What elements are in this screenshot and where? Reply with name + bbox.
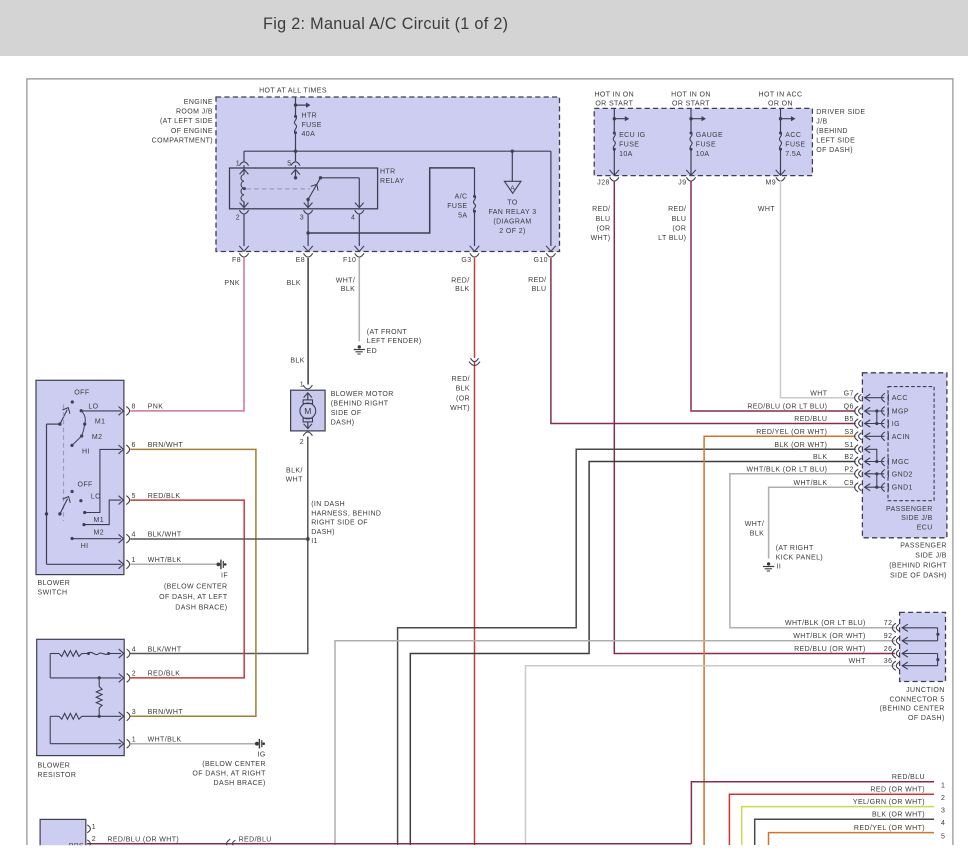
svg-text:(BELOW CENTER: (BELOW CENTER [202, 761, 266, 768]
svg-text:BLK: BLK [455, 286, 469, 293]
svg-text:YEL/GRN (OR WHT): YEL/GRN (OR WHT) [853, 799, 925, 806]
svg-text:FUSE: FUSE [785, 142, 805, 149]
ground ED [354, 345, 365, 354]
wire relay pin4 to F10 [355, 214, 365, 251]
svg-text:DRIVER SIDE: DRIVER SIDE [816, 109, 865, 116]
blower motor pin 2 connector [300, 432, 313, 446]
junction connector 5 row 26 [794, 646, 938, 658]
RED/BLK (OR WHT) label [450, 376, 470, 412]
svg-text:OFF: OFF [78, 482, 93, 489]
svg-text:4: 4 [351, 214, 355, 221]
svg-text:RESISTOR: RESISTOR [38, 772, 77, 779]
ECU junction MGC [875, 460, 878, 463]
svg-text:RED/: RED/ [668, 206, 686, 213]
svg-text:TO: TO [507, 200, 518, 207]
connector G3 [461, 253, 479, 264]
svg-text:RED/BLU: RED/BLU [892, 774, 925, 781]
svg-text:OF DASH): OF DASH) [908, 715, 945, 722]
svg-text:BLU: BLU [532, 286, 547, 293]
svg-text:HARNESS, BEHIND: HARNESS, BEHIND [311, 510, 381, 517]
svg-text:BLK (OR WHT): BLK (OR WHT) [872, 812, 925, 819]
svg-text:5: 5 [287, 160, 291, 167]
svg-text:5: 5 [132, 493, 136, 500]
svg-text:RED/BLU: RED/BLU [239, 836, 272, 843]
svg-text:S1: S1 [844, 442, 853, 449]
blower resistor label [38, 763, 77, 779]
connector E8 [296, 253, 313, 264]
PPS box [40, 819, 86, 853]
svg-text:8: 8 [132, 404, 136, 411]
wire WHT row 36 [526, 666, 895, 845]
off-page triangle TO FAN RELAY 3 [504, 151, 521, 193]
ECU pin S1 connector row [774, 442, 876, 462]
svg-text:FUSE: FUSE [447, 203, 467, 210]
branch pin3 to A/C fuse [308, 168, 474, 233]
svg-text:ACC: ACC [892, 395, 908, 402]
ECU pin C9 GND1 connector row [793, 480, 912, 492]
wire BLK (OR WHT) row 4 [755, 819, 934, 845]
resistor element top [50, 651, 82, 657]
resistor left rail bottom [50, 716, 124, 748]
svg-text:J/B: J/B [816, 119, 827, 126]
fuse label GAUGE [696, 132, 723, 158]
inline connector on G3 wire [469, 358, 480, 365]
splice IG [255, 739, 266, 759]
svg-text:FUSE: FUSE [619, 142, 639, 149]
thermal fuse [82, 649, 124, 658]
svg-text:IG: IG [892, 421, 900, 428]
svg-text:(IN DASH: (IN DASH [311, 501, 345, 508]
svg-text:A/C: A/C [455, 193, 468, 200]
wire relay pin3 to E8 [303, 214, 313, 251]
relay common wire to pin 3 [304, 200, 313, 208]
switch pin 6 connector [126, 442, 135, 454]
svg-text:BLK/WHT: BLK/WHT [148, 646, 182, 653]
ECU junction GND2-GND1 [875, 472, 878, 489]
svg-text:BLU: BLU [596, 216, 611, 223]
passenger side J/B ECU outer box [862, 373, 947, 538]
relay pin 2 connector [236, 209, 249, 222]
wire WHT/BLK resistor pin1 to splice IG [130, 743, 255, 745]
svg-text:(AT FRONT: (AT FRONT [367, 329, 408, 336]
junction connector 5 box [900, 612, 946, 681]
RED/BLU (OR WHT) label below J28 [591, 206, 611, 242]
BLK/WHT label [286, 468, 303, 484]
svg-text:RED/YEL (OR WHT): RED/YEL (OR WHT) [854, 825, 925, 832]
ECU junction MGP-IG [875, 409, 878, 425]
fuse A/C FUSE 5A [470, 168, 480, 251]
switch upper wafer [58, 390, 105, 456]
wire BLK ECU B2 riser [410, 462, 855, 846]
svg-text:RED/BLK: RED/BLK [148, 671, 181, 678]
row 2 label [870, 787, 945, 802]
svg-text:7.5A: 7.5A [785, 151, 801, 158]
svg-text:DASH): DASH) [311, 529, 335, 536]
svg-text:72: 72 [884, 620, 893, 627]
wire WHT/BLK F10 to ground ED [358, 258, 360, 341]
connector J28 [597, 177, 619, 186]
svg-text:Q6: Q6 [844, 404, 854, 411]
engine room J/B label [152, 99, 213, 144]
svg-text:M2: M2 [94, 529, 105, 536]
relay contact wire to pin 4 [321, 178, 364, 208]
resistor element center [96, 678, 102, 718]
svg-text:BLK: BLK [750, 531, 764, 538]
row 3 label [853, 799, 945, 814]
wire WHT M9 to ECU G7 [781, 181, 856, 398]
connector G10 [533, 253, 555, 264]
svg-text:2: 2 [236, 214, 240, 221]
svg-text:M9: M9 [765, 180, 776, 187]
svg-text:5A: 5A [458, 212, 467, 219]
svg-text:SWITCH: SWITCH [38, 589, 68, 596]
wire YEL/GRN (OR WHT) row 3 [742, 807, 934, 845]
svg-text:IF: IF [221, 572, 228, 579]
svg-text:OR START: OR START [595, 101, 633, 108]
relay switch blade [306, 176, 322, 201]
svg-text:BLK: BLK [456, 386, 470, 393]
A/C FUSE 5A label [447, 193, 467, 219]
svg-text:J9: J9 [678, 180, 686, 187]
svg-text:HOT IN ON: HOT IN ON [671, 92, 711, 99]
blower switch box [36, 380, 124, 574]
RED/BLU (OR LT BLU) label below J9 [658, 206, 686, 242]
svg-text:1: 1 [236, 160, 240, 167]
svg-text:BLK: BLK [290, 358, 304, 365]
svg-text:OR ON: OR ON [768, 101, 793, 108]
svg-text:DASH BRACE): DASH BRACE) [214, 780, 266, 787]
wire to relay pin 5 [295, 151, 297, 161]
svg-text:HTR: HTR [302, 113, 318, 120]
blower motor pin 1 connector [300, 382, 313, 389]
TO FAN RELAY 3 label [488, 200, 536, 236]
svg-text:OF DASH, AT RIGHT: OF DASH, AT RIGHT [192, 771, 266, 778]
svg-text:M2: M2 [92, 434, 103, 441]
svg-text:RED/BLU (OR LT BLU): RED/BLU (OR LT BLU) [747, 404, 827, 411]
WHT/BLK label near ground II [745, 521, 764, 538]
svg-text:C9: C9 [844, 480, 854, 487]
svg-text:OR START: OR START [672, 101, 710, 108]
connector M9 [765, 177, 785, 186]
switch pin 5 connector [126, 493, 135, 505]
wire BLK/WHT motor pin2 to I1 to resistor pin 4 [130, 437, 307, 654]
HTR FUSE 40A label [302, 113, 322, 139]
RED/BLU label below G10 [528, 277, 546, 293]
wire RED/BLU J28 to junction connector row 26 [614, 181, 895, 654]
wire lower HI to pin 4 [72, 534, 123, 543]
svg-text:G7: G7 [844, 390, 854, 397]
svg-text:PNK: PNK [224, 280, 240, 287]
engine room J/B box [216, 97, 560, 252]
svg-text:HI: HI [81, 543, 89, 550]
resistor pin 3 connector [127, 709, 136, 721]
svg-text:WHT/BLK (OR LT BLU): WHT/BLK (OR LT BLU) [785, 620, 866, 627]
resistor pin 4 connector [127, 646, 136, 658]
wire RED/BLU G10 to ECU B5 [551, 258, 856, 424]
svg-text:BLOWER: BLOWER [38, 763, 71, 770]
svg-text:FAN RELAY 3: FAN RELAY 3 [488, 209, 536, 216]
svg-text:(OR: (OR [672, 226, 686, 233]
svg-text:ED: ED [367, 348, 378, 355]
driver side J/B label [816, 109, 865, 154]
wire upper LO to pin 8 [81, 407, 123, 416]
relay coil [240, 169, 249, 207]
blower motor box [291, 390, 326, 431]
svg-text:(BEHIND RIGHT: (BEHIND RIGHT [331, 400, 389, 407]
svg-text:BRN/WHT: BRN/WHT [148, 442, 184, 449]
wire WHT/BLK ECU C9 to ground II [769, 487, 856, 558]
svg-text:RED/: RED/ [452, 376, 470, 383]
svg-text:BRN/WHT: BRN/WHT [148, 709, 184, 716]
fuse HTR FUSE 40A [294, 115, 297, 134]
ECU pin S3 ACIN connector row [756, 429, 910, 441]
svg-text:OF ENGINE: OF ENGINE [171, 128, 213, 135]
svg-text:WHT/BLK: WHT/BLK [793, 480, 827, 487]
svg-text:10A: 10A [696, 151, 710, 158]
svg-text:RED/YEL (OR WHT): RED/YEL (OR WHT) [756, 429, 827, 436]
junction connector 5 row 92 [793, 633, 937, 645]
svg-text:JUNCTION: JUNCTION [906, 687, 945, 694]
switch pin 8 connector [126, 404, 135, 416]
bus rail from HTR fuse [244, 150, 551, 153]
splice IF [217, 560, 229, 580]
wire WHT/BLK(OR WHT) row 92 [335, 641, 895, 845]
svg-text:I1: I1 [311, 538, 318, 545]
relay mechanical link dashed [247, 188, 311, 190]
svg-text:SIDE J/B: SIDE J/B [901, 515, 933, 522]
PASSENGER SIDE J/B location label [889, 543, 947, 580]
wire RED/YEL (OR WHT) row 5 [769, 833, 935, 845]
svg-text:DASH BRACE): DASH BRACE) [175, 605, 227, 612]
svg-text:GND2: GND2 [892, 471, 913, 478]
wire RED (OR WHT) row 2 [729, 794, 934, 845]
passenger side J/B ECU inner box [888, 387, 934, 501]
wire rail to G10 [546, 151, 556, 251]
wire WHT/BLK ECU P2 to junction row 72 [730, 474, 895, 628]
svg-text:WHT: WHT [849, 658, 866, 665]
svg-text:(BEHIND CENTER: (BEHIND CENTER [880, 706, 945, 713]
svg-text:HOT IN ACC: HOT IN ACC [759, 92, 803, 99]
svg-text:RED/BLU (OR WHT): RED/BLU (OR WHT) [107, 836, 179, 843]
svg-text:P2: P2 [844, 467, 853, 474]
svg-text:ACC: ACC [785, 132, 801, 139]
svg-text:3: 3 [941, 807, 945, 814]
svg-text:MGP: MGP [892, 409, 909, 416]
switch pin 4 connector [126, 532, 135, 544]
svg-text:(BELOW CENTER: (BELOW CENTER [164, 583, 228, 590]
svg-text:CONNECTOR 5: CONNECTOR 5 [889, 696, 944, 703]
svg-text:WHT: WHT [286, 476, 303, 483]
connector F8 [232, 253, 249, 264]
svg-text:BLK: BLK [813, 454, 827, 461]
svg-text:PNK: PNK [148, 404, 164, 411]
svg-text:II: II [777, 563, 782, 570]
svg-text:RED/BLK: RED/BLK [148, 493, 181, 500]
svg-text:RIGHT SIDE OF: RIGHT SIDE OF [311, 520, 368, 527]
connector J9 [678, 177, 695, 186]
wire WHT/BLK switch pin1 to splice IF [130, 563, 217, 565]
svg-text:ECU IG: ECU IG [619, 132, 646, 139]
svg-text:HTR: HTR [380, 168, 396, 175]
svg-text:(OR: (OR [456, 395, 470, 402]
svg-text:RED (OR WHT): RED (OR WHT) [870, 787, 925, 794]
inline connector on PPS wire [227, 839, 236, 848]
wire BRN/WHT switch pin6 to resistor pin 3 [130, 449, 256, 716]
switch pin 1 connector [126, 557, 135, 569]
junction bus bar 72-92 [936, 628, 939, 641]
blower switch label [38, 580, 71, 597]
svg-text:BLK/: BLK/ [286, 468, 303, 475]
svg-text:LO: LO [88, 403, 98, 410]
svg-text:WHT/BLK (OR LT BLU): WHT/BLK (OR LT BLU) [747, 467, 828, 474]
connector F10 [343, 253, 364, 264]
wire BLK(OR WHT) ECU S1 riser [398, 449, 856, 845]
hot label J28 [594, 92, 634, 108]
svg-text:BLOWER MOTOR: BLOWER MOTOR [331, 391, 394, 398]
wire RED/BLK G3 down [474, 258, 476, 845]
svg-text:1: 1 [300, 382, 304, 389]
wire BLK E8 to blower motor pin 1 [307, 258, 309, 385]
svg-text:M1: M1 [95, 419, 106, 426]
svg-text:2 OF 2): 2 OF 2) [499, 228, 526, 235]
motor M1 blower motor [300, 393, 316, 429]
svg-text:RELAY: RELAY [380, 178, 404, 185]
svg-text:1: 1 [92, 824, 96, 831]
svg-text:2: 2 [132, 671, 136, 678]
svg-text:6: 6 [132, 442, 136, 449]
svg-text:WHT): WHT) [450, 405, 470, 412]
svg-text:2: 2 [941, 795, 945, 802]
wire RED/BLU row 1 riser [87, 782, 934, 844]
svg-text:40A: 40A [302, 131, 316, 138]
svg-text:(BEHIND RIGHT: (BEHIND RIGHT [889, 562, 947, 569]
svg-text:SIDE OF: SIDE OF [331, 410, 362, 417]
svg-text:RED/BLU (OR WHT): RED/BLU (OR WHT) [794, 646, 866, 653]
header bar [0, 0, 968, 56]
wire RED/BLK switch pin5 to resistor pin 2 [130, 500, 244, 678]
ECU pin Q6 MGP connector row [747, 404, 909, 416]
svg-text:SIDE OF DASH): SIDE OF DASH) [890, 572, 947, 579]
svg-text:WHT/: WHT/ [745, 521, 764, 528]
svg-text:ECU: ECU [917, 525, 933, 532]
relay pin 5 stub [291, 170, 300, 180]
svg-text:OF DASH, AT LEFT: OF DASH, AT LEFT [159, 594, 228, 601]
svg-text:WHT/BLK (OR WHT): WHT/BLK (OR WHT) [793, 633, 866, 640]
hot label M9 [759, 92, 803, 108]
switch lower wafer [58, 482, 104, 551]
svg-text:1: 1 [941, 783, 945, 790]
svg-text:MGC: MGC [892, 459, 910, 466]
junction bus bar 26-36 [936, 654, 939, 666]
resistor pin 1 connector [127, 737, 136, 749]
blower resistor box [37, 639, 125, 755]
svg-text:RED/: RED/ [528, 277, 546, 284]
svg-text:Fig 2: Manual A/C Circuit (1 o: Fig 2: Manual A/C Circuit (1 of 2) [263, 15, 508, 33]
RED/BLK label below G3 [451, 277, 469, 293]
relay pin 1 connector [236, 160, 249, 168]
svg-text:DASH): DASH) [331, 420, 355, 427]
svg-text:M1: M1 [94, 517, 105, 524]
wire BLK/WHT switch pin4 to splice I1 [130, 538, 307, 540]
svg-text:4: 4 [132, 646, 136, 653]
wire lower M1 to pin 6 [85, 445, 124, 513]
resistor pin 2 connector [127, 671, 136, 683]
fuse GAUGE 10A column J9 [686, 108, 706, 175]
svg-text:(DIAGRAM: (DIAGRAM [493, 219, 531, 226]
svg-text:BLOWER: BLOWER [38, 580, 71, 587]
svg-text:KICK PANEL): KICK PANEL) [776, 555, 823, 562]
svg-text:1: 1 [132, 737, 136, 744]
ECU pin B5 IG connector row [794, 416, 900, 428]
wire hot feed into HTR fuse [294, 97, 311, 151]
svg-text:B5: B5 [844, 416, 853, 423]
svg-text:BLK (OR WHT): BLK (OR WHT) [774, 442, 827, 449]
svg-text:4: 4 [941, 820, 945, 827]
svg-text:A: A [510, 185, 515, 192]
svg-text:BLU: BLU [672, 216, 687, 223]
svg-text:RED/: RED/ [451, 277, 469, 284]
wire lower M2 to pin 5 [84, 496, 124, 525]
resistor left rail top [50, 654, 124, 683]
wire RED/YEL ECU S3 riser [704, 436, 856, 845]
svg-text:WHT: WHT [758, 206, 775, 213]
BELOW CENTER OF DASH AT LEFT label [159, 583, 228, 611]
svg-text:F10: F10 [343, 257, 356, 264]
PPS pin 1 connector [87, 824, 96, 833]
switch common rail [45, 424, 124, 569]
BELOW CENTER OF DASH AT RIGHT label [192, 761, 266, 787]
svg-text:F8: F8 [232, 257, 241, 264]
fuse label ECU IG [619, 132, 646, 158]
WHT/BLK label below F10 [336, 277, 355, 293]
svg-text:WHT/: WHT/ [336, 277, 355, 284]
row 1 label [892, 774, 945, 789]
blower motor label [331, 391, 394, 427]
svg-text:1: 1 [132, 557, 136, 564]
svg-text:2: 2 [92, 836, 96, 843]
svg-text:OF DASH): OF DASH) [816, 147, 853, 154]
svg-text:ENGINE: ENGINE [184, 99, 213, 106]
svg-text:3: 3 [132, 709, 136, 716]
svg-text:BLK/WHT: BLK/WHT [148, 532, 182, 539]
fuse label ACC [785, 132, 805, 158]
svg-text:(AT RIGHT: (AT RIGHT [776, 545, 814, 552]
AT RIGHT KICK PANEL label [776, 545, 823, 562]
relay pin 3 connector [300, 210, 313, 221]
svg-text:HOT IN ON: HOT IN ON [594, 92, 634, 99]
svg-text:10A: 10A [619, 151, 633, 158]
svg-text:LT BLU): LT BLU) [658, 235, 686, 242]
fuse ECU IG 10A column J28 [610, 108, 630, 175]
svg-text:FUSE: FUSE [302, 122, 322, 129]
svg-text:GND1: GND1 [892, 485, 913, 492]
ECU pin B2 MGC connector row [813, 454, 909, 466]
junction connector 5 row 72 [785, 620, 938, 632]
svg-text:G3: G3 [461, 257, 471, 264]
wire PNK F8 to blower switch pin 8 [130, 258, 244, 411]
svg-text:RED/BLU: RED/BLU [794, 416, 827, 423]
svg-text:BLK: BLK [287, 280, 301, 287]
splice I1 [306, 501, 381, 545]
wire to relay pin 1 [243, 151, 245, 161]
svg-text:(AT LEFT SIDE: (AT LEFT SIDE [160, 118, 213, 125]
ECU pin G7 ACC connector row [810, 390, 908, 402]
HTR RELAY label [380, 168, 404, 185]
svg-text:RED/: RED/ [592, 206, 610, 213]
relay HTR RELAY box [230, 168, 378, 209]
svg-text:5: 5 [941, 833, 945, 840]
svg-text:GAUGE: GAUGE [696, 132, 723, 139]
